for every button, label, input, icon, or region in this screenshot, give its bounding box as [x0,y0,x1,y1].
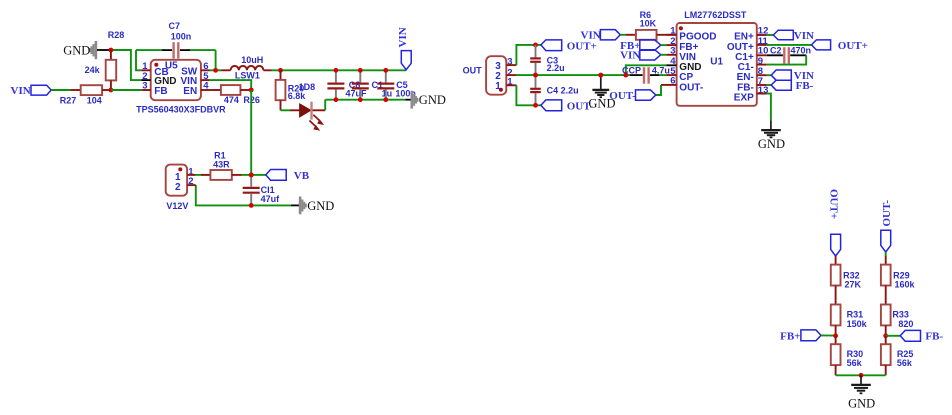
node junction C3/C4 rail (top copy) [533,73,538,78]
wire pin12 to VIN flag [767,34,774,36]
svg-text:2.2u: 2.2u [547,63,565,73]
svg-text:EN+: EN+ [734,32,754,43]
svg-text:GND: GND [63,43,90,57]
wire bottom GND rail [836,374,886,376]
wire to GND right (black) [405,99,411,101]
capacitor C5 [377,70,394,99]
svg-text:OUT+: OUT+ [567,40,597,52]
port OUT- flag bottom network (down-pointing) [881,200,893,256]
pin 2 lead U1 [666,44,676,46]
node junction pin4 tap [623,73,628,78]
wire C7 left to CB pin1 [136,50,141,70]
node junction VB [249,173,254,178]
port VIN flag pin8 [771,70,814,82]
pin 5 lead U1 [666,74,676,76]
resistor R32 [831,256,841,305]
resistor R30 [831,336,841,376]
svg-text:27K: 27K [845,279,862,289]
pin 4 lead U5 [201,89,210,91]
resistor R29 [881,256,891,305]
svg-text:1u: 1u [382,88,393,98]
pin 5 lead U5 [201,79,210,81]
pin 1 lead OUT [506,84,516,86]
svg-text:VB: VB [294,170,310,182]
pin 3 lead U5 [141,89,150,91]
node junction C5 top [383,68,388,73]
svg-text:150k: 150k [847,319,868,329]
svg-text:OUT-: OUT- [609,90,636,102]
node junction pin4 tap (top copy) [623,73,628,78]
svg-text:GND: GND [848,396,875,410]
resistor R20 [276,70,286,110]
capacitor C4 [530,75,541,105]
op-amp U1 LM27762DSST body [677,23,757,106]
connector V12V [166,165,187,196]
port VIN flag to pin3 [620,50,666,62]
svg-text:474: 474 [224,95,239,105]
wire FB net to U5 pin3 [111,89,141,91]
svg-text:GND: GND [419,93,446,107]
capacitor C8 [327,70,344,99]
port OUT- flag lower [541,100,594,113]
pin 3 lead U1 [666,54,676,56]
svg-text:24k: 24k [85,65,101,75]
svg-text:6: 6 [670,76,675,87]
wire VIN to R27 [51,89,70,91]
svg-text:OUT: OUT [463,65,483,75]
pin 2 lead OUT [506,74,516,76]
svg-text:OUT-: OUT- [881,200,893,227]
svg-text:EN-: EN- [737,72,754,83]
resistor R6 [620,30,676,40]
pin 1 lead U1 [666,34,676,36]
svg-text:OUT-: OUT- [679,82,703,93]
pin 7 lead U1 [757,84,767,86]
node junction C1 bottom [358,97,363,102]
wire OUT+ net (pin3 up) [516,45,541,65]
svg-text:CP: CP [679,72,693,83]
svg-text:820: 820 [898,319,913,329]
svg-text:R33: R33 [892,309,909,319]
inductor LSW1 10uH [222,66,272,70]
svg-text:C4 2.2u: C4 2.2u [547,86,579,96]
node junction FB- [883,333,888,338]
node junction GND tap [598,73,603,78]
capacitor CCP [630,67,667,84]
resistor R33 [881,305,891,336]
svg-text:VIN: VIN [581,30,601,42]
port VIN flag top (down-pointing) [397,27,411,69]
pin 12 lead U1 [757,34,767,36]
resistor R25 [881,336,891,376]
pin 1 lead U5 [141,69,150,71]
svg-text:R27: R27 [60,95,77,105]
node junction EN/R26 [249,88,254,93]
svg-text:4: 4 [203,81,209,92]
capacitor CI1 [243,175,260,206]
port FB+ flag to pin2 [620,40,666,52]
wire OUT- net (pin1 down) [516,85,541,105]
node junction FB+ [833,333,838,338]
node junction rail C3 [533,73,538,78]
resistor R28 [106,50,117,90]
ground GND below EXP [761,120,781,137]
wire inductor to VOUT rail [272,69,407,71]
pin 9 lead U1 [757,64,767,66]
svg-text:VIN: VIN [11,85,31,97]
port VIN flag to R6 [581,30,621,42]
LED D8 [281,102,326,130]
ground GND bottom network [851,375,871,393]
port OUT+ flag bottom network (down-pointing) [827,189,840,256]
svg-text:EN: EN [183,86,197,97]
wire pin11 to OUT+ flag [767,44,812,46]
wire OUT- pin6 elbow [656,85,661,95]
svg-text:FB-: FB- [796,80,814,92]
wire SW to inductor [210,69,222,71]
svg-text:104: 104 [87,95,102,105]
svg-text:GND: GND [758,137,785,151]
node junction SW/C7 [213,68,218,73]
svg-text:FB-: FB- [925,331,943,343]
pin 2 lead U5 (black) [141,79,150,81]
pin 8 lead U1 [757,74,767,76]
port FB- flag pin7 [771,80,813,92]
svg-text:PGOOD: PGOOD [679,32,716,43]
svg-text:160k: 160k [895,279,916,289]
svg-text:FB+: FB+ [780,330,800,342]
svg-text:10K: 10K [640,18,657,28]
svg-text:LSW1: LSW1 [235,71,260,81]
svg-text:56k: 56k [847,358,863,368]
pin 4 lead U1 (black) [666,64,676,66]
node junction R20 top [278,68,283,73]
wire to GND (black) [291,204,300,206]
wire V12V pin2 to bottom rail [196,185,291,205]
port OUT+ flag upper [541,40,597,52]
op-amp U5 TPS560430 body [151,60,201,100]
svg-text:47uF: 47uF [346,88,368,98]
node junction C8 top [334,68,339,73]
svg-text:1: 1 [495,81,501,92]
wire middle rail OUT pin2 to CP [516,74,629,76]
svg-text:4.7u: 4.7u [652,65,670,75]
port VIN left [11,85,52,97]
wire VB vertical [250,90,252,175]
pin 1 lead V12V [187,174,196,176]
node junction GND tap (top copy) [598,73,603,78]
pin 6 lead U1 [661,84,677,86]
resistor R27 [71,85,111,95]
port VIN flag pin12 [773,30,814,42]
svg-text:56k: 56k [897,358,913,368]
svg-text:47uf: 47uf [261,194,281,204]
capacitor C3 [530,45,541,75]
wire VB to flag [251,174,266,176]
capacitor C2 [757,47,806,64]
svg-text:U1: U1 [710,56,723,67]
resistor R1 [196,170,251,180]
node junction C1 top [358,68,363,73]
svg-text:TPS560430X3FDBVR: TPS560430X3FDBVR [136,105,226,115]
svg-text:EXP: EXP [734,93,754,104]
port OUT- flag mid [609,90,656,102]
svg-text:6.8k: 6.8k [288,91,307,101]
node junction R27/R28/FB [109,88,114,93]
resistor R26 [210,85,252,95]
pin 3 lead OUT [506,64,516,66]
wire GND to junction (black) [97,49,111,51]
svg-text:VIN: VIN [397,27,409,47]
pin 13 lead U1 [757,93,767,95]
ground GND right of C5 [412,91,418,109]
wire LED cathode up to bottom rail [324,100,326,111]
pin 6 lead U5 [201,69,210,71]
pin 11 lead U1 [757,44,767,46]
node junction at R28 top [109,48,114,53]
wire GND pin4 net [626,65,667,75]
ground GND middle [592,75,609,97]
wire C7 right down to SW [215,50,217,70]
node junction GND rail [859,373,864,378]
wire FB- to flag [886,335,901,337]
wire GND net to U5 pin2 [111,50,141,80]
port FB- flag bottom [900,330,943,342]
wire C2 to pin9 [767,55,806,64]
port OUT+ flag right [812,40,868,52]
node junction C4 bottom [533,103,538,108]
ground GND below VB [300,197,306,215]
node junction C5 bottom [383,97,388,102]
svg-text:OUT+: OUT+ [827,189,839,219]
port VB flag (left-pointing) [266,170,310,182]
node junction C3 top [533,43,538,48]
svg-text:3: 3 [142,81,147,92]
svg-text:470n: 470n [791,45,812,55]
port FB+ flag bottom [780,330,836,342]
wire pin7 to FB- flag [767,84,771,86]
capacitor C7 [136,42,216,58]
node junction VB (top copy) [249,173,254,178]
svg-text:3: 3 [670,46,675,57]
svg-text:VIN: VIN [794,30,814,42]
svg-text:C7: C7 [169,21,181,31]
svg-text:2: 2 [175,182,181,193]
capacitor C1 [352,70,369,99]
pin 2 lead V12V [187,184,196,186]
svg-text:V12V: V12V [166,201,188,211]
svg-text:FB: FB [154,86,167,97]
connector OUT [486,56,506,94]
wire VIN(VB) net from pin5 down [210,80,252,90]
node junction C8 bottom [334,97,339,102]
wire pin13 EXP to GND [767,94,771,121]
wire bottom cap rail [325,99,405,101]
resistor R31 [831,305,841,336]
svg-text:GND: GND [307,199,334,213]
svg-text:C2: C2 [770,45,782,55]
wire pin8 to VIN flag [767,74,771,76]
ground GND top-left symbol [90,41,96,59]
svg-text:43R: 43R [213,159,230,169]
svg-text:100n: 100n [171,32,192,42]
svg-text:R28: R28 [108,30,125,40]
svg-text:LM27762DSST: LM27762DSST [684,10,747,20]
svg-text:OUT+: OUT+ [838,40,868,52]
node junction CI1 bottom [249,203,254,208]
svg-text:VIN: VIN [620,50,640,62]
svg-text:R31: R31 [847,309,864,319]
svg-text:10uH: 10uH [241,55,263,65]
